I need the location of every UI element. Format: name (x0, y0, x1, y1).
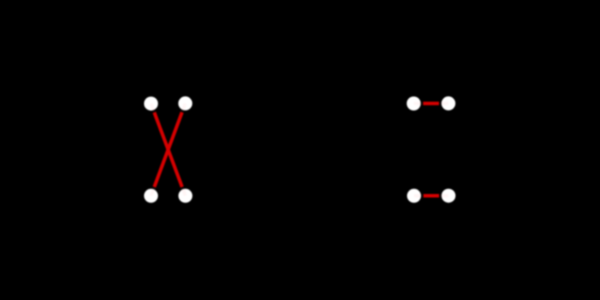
node L4 bottom-right (178, 189, 192, 203)
edge L1-L4 (crossing edge, red) (154, 112, 182, 187)
node R1 (407, 97, 421, 111)
node L1 top-left (144, 97, 158, 111)
node R3 (407, 189, 421, 203)
node R2 (441, 96, 455, 110)
node R4 (442, 189, 456, 203)
edge R3-R4 (horizontal, red) (423, 194, 439, 198)
edge L2-L3 (crossing edge, red) (154, 112, 182, 187)
edge R1-R2 (horizontal, red) (423, 102, 439, 106)
node L3 bottom-left (144, 189, 158, 203)
node L2 top-right (178, 96, 192, 110)
faint edge ghosts under nodes (151, 103, 449, 195)
